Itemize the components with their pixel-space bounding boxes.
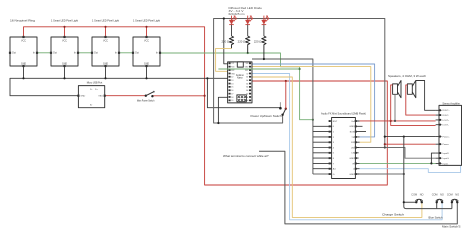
- wire red speaker2 + to amp ROUT-: [406, 85, 436, 115]
- svg-text:620-625 nm: 620-625 nm: [229, 13, 245, 16]
- svg-text:220 Ω: 220 Ω: [238, 40, 246, 44]
- wire black arduino L1 to top rail: [224, 19, 228, 64]
- svg-text:InputR: InputR: [443, 152, 450, 155]
- soundboard U2 Audio FX Mini: [321, 112, 366, 179]
- svg-text:BUS: BUS: [350, 132, 355, 134]
- power up/down switch: [251, 102, 287, 118]
- svg-text:Main Power Switch: Main Power Switch: [137, 98, 155, 102]
- pushbutton switch S2 COM NO: [432, 192, 444, 203]
- wire blue arduino TX to soundboard: [252, 64, 375, 137]
- wire red arduino 5V drop to power switch: [285, 81, 287, 109]
- pushbutton switch S3 COM NO: [447, 192, 459, 203]
- svg-text:LOUT+: LOUT+: [443, 120, 451, 122]
- svg-text:D2: D2: [231, 77, 233, 79]
- speaker SP2: [407, 81, 415, 98]
- svg-text:D6: D6: [231, 90, 233, 92]
- node speaker1 - joins: [394, 120, 396, 122]
- resistor R3 220ohm: [254, 36, 266, 59]
- wire green data chain box3-box4: [119, 52, 133, 54]
- LED D1: [229, 16, 236, 36]
- svg-text:D-: D-: [90, 89, 93, 91]
- wire green data chain box2-box3: [78, 52, 92, 54]
- wire 5V red net: arduino to bottom rail up to LED rail: [205, 81, 388, 185]
- svg-text:InputL: InputL: [443, 162, 450, 165]
- wire red speaker1 +: [391, 85, 393, 121]
- svg-text:COM: COM: [447, 192, 453, 196]
- wire cyan soundboard L out wrap under amp: [360, 166, 461, 173]
- LED pixel box 1: 16 Neopixel Ring: [9, 19, 38, 68]
- soundboard right stubs: [355, 121, 366, 174]
- arduino pin rows: [229, 63, 252, 102]
- resistor R1 220ohm: [221, 36, 233, 48]
- LED pixel box 2: 1 Smart LED Pixel Light: [50, 19, 79, 68]
- svg-text:COM: COM: [411, 192, 417, 196]
- node red junction at 390.7: [390, 120, 392, 122]
- LED D2: [245, 16, 252, 36]
- svg-text:Out: Out: [12, 52, 16, 55]
- soundboard pin labels: [333, 121, 355, 176]
- node gray loop end joins r6: [384, 146, 386, 148]
- node junction L1 on rail: [223, 17, 225, 19]
- svg-text:D7: D7: [231, 94, 233, 96]
- wire gray annotation leader to Main Switch NO: [259, 151, 457, 224]
- wire gray arduino r1 data line to soundboard left bus: [252, 59, 313, 174]
- svg-text:Main Switch'S: Main Switch'S: [442, 224, 461, 228]
- amp stereo amplifier U3: [439, 101, 462, 165]
- wire cyan arduino to Blue Switch NO: [252, 74, 442, 220]
- wire red from main power switch to red vertical: [152, 95, 204, 97]
- wire gray soundboard r6 to amp InputG: [360, 148, 436, 159]
- wire green soundboard R out to amp InputL: [360, 162, 436, 164]
- wire yellow arduino RX to soundboard: [252, 67, 371, 143]
- wire black speaker2 - to amp ROUT+: [416, 81, 436, 111]
- svg-text:Power-: Power-: [443, 143, 450, 146]
- svg-text:NO: NO: [440, 192, 444, 196]
- svg-text:Arduino: Arduino: [236, 74, 245, 77]
- svg-text:UG: UG: [351, 147, 355, 149]
- svg-text:220 Ω: 220 Ω: [221, 40, 229, 44]
- wire red Power- line: [385, 143, 436, 145]
- svg-text:ROUT-: ROUT-: [443, 115, 450, 117]
- wire green data chain box1-box2: [37, 52, 51, 54]
- svg-text:GND: GND: [349, 158, 354, 160]
- svg-text:Out: Out: [135, 52, 139, 55]
- amp pin labels: [443, 110, 451, 165]
- wire gray power loop: power up/down switch around to amp Power+: [214, 19, 385, 148]
- wire red from USB VBU to main power switch: [105, 95, 146, 97]
- wire green2 over arduino: [218, 68, 299, 70]
- node red bus junctions: [63, 26, 287, 97]
- node R3 joins gray data line: [263, 58, 265, 60]
- soundboard left bus stubs: [313, 126, 332, 174]
- LED D3: [262, 16, 269, 36]
- svg-text:1 Smart LED Pixel Light: 1 Smart LED Pixel Light: [51, 19, 78, 23]
- node junction r11: [403, 173, 405, 175]
- svg-text:RST: RST: [231, 70, 234, 72]
- wire GND black bus under LED boxes to USB GND: [10, 66, 280, 108]
- wire red branch to amp LOUT-: [391, 121, 436, 126]
- LED pixel box 4: 1 Smart LED Pixel Light: [132, 19, 161, 68]
- svg-text:Stereo Amplifier: Stereo Amplifier: [442, 101, 460, 105]
- svg-text:GND: GND: [80, 96, 85, 98]
- node junction green/black: [430, 162, 432, 164]
- main power switch: [137, 91, 155, 103]
- wire gray speaker1 -: [394, 94, 396, 121]
- svg-text:D9: D9: [231, 100, 233, 102]
- svg-text:Act: Act: [333, 168, 337, 171]
- svg-text:Out: Out: [94, 52, 98, 55]
- svg-text:D4: D4: [231, 83, 233, 85]
- svg-text:Speakers, 4 OHM, 3 W each: Speakers, 4 OHM, 3 W each: [388, 74, 426, 78]
- wire yellow R1 to arduino left: [216, 48, 232, 71]
- svg-text:Charge Switch: Charge Switch: [382, 213, 405, 217]
- wire green long from box4 In past R2 down to soundboard bus: [160, 53, 313, 120]
- arduino ICSP header: [237, 95, 247, 102]
- svg-text:1 Smart LED Pixel Light: 1 Smart LED Pixel Light: [92, 19, 119, 23]
- svg-text:RX0: RX0: [231, 67, 234, 69]
- svg-text:What terminal to connect while: What terminal to connect while at?: [223, 154, 269, 158]
- svg-text:VCC: VCC: [62, 39, 67, 42]
- node Power+ junctions: [384, 136, 386, 138]
- svg-text:VBU: VBU: [98, 96, 103, 98]
- svg-text:LOUT-: LOUT-: [443, 125, 449, 127]
- node GND bus junctions: [22, 77, 208, 79]
- svg-text:G: G: [333, 174, 335, 176]
- svg-text:NO: NO: [455, 192, 459, 196]
- wire black Power+ line: [385, 136, 436, 138]
- svg-text:Audio FX Mini Soundboard (2MB: Audio FX Mini Soundboard (2MB Flash): [321, 112, 366, 116]
- svg-text:VCC: VCC: [21, 39, 26, 42]
- wire black arduino L11 to switch return line: [218, 97, 227, 123]
- soundboard pin squares: [329, 120, 357, 175]
- arduino nano U1: [228, 62, 252, 103]
- LED title text: [229, 7, 263, 16]
- speaker SP1: [388, 74, 426, 98]
- svg-text:COM: COM: [432, 192, 438, 196]
- svg-text:VCC: VCC: [144, 39, 149, 42]
- amp pin squares: [439, 109, 441, 164]
- svg-text:Out: Out: [53, 52, 57, 55]
- svg-text:InputG: InputG: [443, 157, 450, 160]
- svg-text:16 Neopixel Ring: 16 Neopixel Ring: [10, 19, 36, 23]
- svg-text:VCC: VCC: [103, 39, 108, 42]
- LED pixel box 3: 1 Smart LED Pixel Light: [91, 19, 120, 68]
- svg-text:GND: GND: [349, 126, 354, 128]
- svg-text:Micro USB Port: Micro USB Port: [87, 81, 103, 85]
- svg-text:1 Smart LED Pixel Light: 1 Smart LED Pixel Light: [133, 19, 160, 23]
- amp pin stubs: [436, 110, 442, 163]
- svg-text:D3: D3: [231, 80, 233, 82]
- wire yellow arduino to Charge Switch NO: [252, 77, 422, 217]
- wire VCC red bus: [24, 27, 205, 96]
- svg-text:220 Ω: 220 Ω: [254, 40, 262, 44]
- node Power- junction: [384, 143, 386, 145]
- svg-text:RST: RST: [245, 70, 248, 72]
- wire gray soundboard GND to switches common: [360, 173, 404, 175]
- svg-text:Power+: Power+: [443, 136, 451, 139]
- wire gray switches common drop: [404, 137, 452, 209]
- svg-text:ROUT+: ROUT+: [443, 110, 451, 112]
- svg-text:D8: D8: [231, 97, 233, 99]
- svg-text:D5: D5: [231, 87, 233, 89]
- node common junction: [403, 201, 405, 203]
- micro USB port box: [77, 81, 105, 108]
- svg-text:TX1: TX1: [231, 63, 234, 65]
- svg-text:Nano: Nano: [237, 78, 243, 80]
- resistor R2 220ohm: [238, 36, 250, 53]
- svg-text:RST: RST: [333, 121, 338, 123]
- wire black elbow to amp InputR: [431, 153, 435, 163]
- svg-text:NO: NO: [420, 192, 424, 196]
- arduino tiny pin labels: [231, 63, 249, 102]
- svg-text:Power Up/Down Switch: Power Up/Down Switch: [251, 114, 282, 118]
- wire red Vin line to amp LOUT+: [360, 120, 436, 122]
- node junction L11: [217, 122, 219, 124]
- svg-text:RX: RX: [351, 142, 355, 144]
- pushbutton switch S1 COM NO: [411, 192, 423, 203]
- svg-text:CS: CS: [351, 153, 355, 155]
- svg-text:GND: GND: [349, 174, 354, 176]
- node green junctions: [247, 52, 314, 121]
- svg-text:Blue Switch: Blue Switch: [429, 215, 443, 219]
